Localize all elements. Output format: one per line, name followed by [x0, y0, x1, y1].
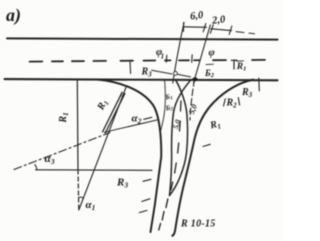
tick left of R2 — [224, 99, 226, 106]
tick with R1 overbar on centerline right — [233, 60, 235, 69]
svg-text:R3: R3 — [141, 67, 153, 79]
left side tick y118 — [144, 117, 152, 119]
svg-text:2,0: 2,0 — [211, 14, 227, 27]
svg-text:R1: R1 — [236, 62, 247, 73]
left side tick y200 — [142, 199, 150, 202]
svg-text:R2: R2 — [226, 98, 238, 110]
long radial line to alpha1 vertex — [79, 86, 127, 210]
svg-text:R3: R3 — [116, 177, 128, 190]
svg-text:R1: R1 — [95, 98, 111, 113]
tick on centerline x130 — [129, 61, 132, 73]
alpha2 ray — [105, 120, 158, 132]
left R1 curve and left edge of branch road — [96, 79, 161, 232]
R1 radius band line 1 — [103, 92, 123, 132]
tangent point tick on bottom edge right — [258, 78, 261, 91]
svg-text:а): а) — [6, 5, 21, 26]
left extension line of branch edge above road — [173, 23, 184, 84]
junction ink blob — [192, 77, 197, 81]
svg-text:R1: R1 — [208, 118, 222, 132]
vertical construction line — [76, 80, 79, 170]
R1 radius band line 2 — [105, 94, 125, 134]
2,0 right tick — [229, 26, 232, 34]
island right side (crossing from upper-left) — [170, 81, 188, 196]
angle alpha3 arc — [35, 165, 37, 170]
tick below phi1 — [165, 55, 168, 62]
svg-text:6,0: 6,0 — [190, 10, 205, 23]
svg-text:R1: R1 — [58, 112, 70, 123]
tick right of R2 — [238, 98, 239, 106]
svg-text:α3: α3 — [45, 153, 55, 166]
svg-text:φ1: φ1 — [156, 47, 164, 61]
svg-text:α1: α1 — [86, 199, 96, 212]
svg-text:R 10-15: R 10-15 — [180, 219, 216, 230]
svg-text:Б2: Б2 — [204, 68, 215, 79]
dash-dot bisector line — [14, 133, 110, 170]
dashed continuation after 2,0 — [236, 32, 255, 34]
left side tick y180 — [143, 179, 151, 181]
svg-text:α2: α2 — [132, 113, 142, 126]
bottom road edge — [5, 79, 278, 80]
dimension line 2,0 — [211, 29, 232, 31]
2,0 left tick — [210, 25, 213, 33]
right composite curve R3-R2-R1 and right edge of branch road — [172, 80, 253, 236]
node circle — [174, 72, 178, 76]
dashed centerline of main road — [30, 60, 265, 62]
leader from R3 to node circle — [152, 70, 191, 77]
svg-text:R3: R3 — [241, 87, 253, 99]
horizontal R3 measure line — [36, 169, 153, 172]
6,0 left tick — [183, 23, 185, 32]
band arrowhead — [121, 92, 125, 96]
island left side (crossing from upper-right) — [170, 80, 192, 196]
right extension line of branch edge above road — [194, 25, 211, 83]
right side tick y145 — [203, 144, 210, 146]
dimension line 6,0 — [184, 26, 207, 29]
top road edge — [7, 38, 278, 39]
left side tick y211 — [139, 210, 147, 212]
svg-text:5,0: 5,0 — [187, 103, 199, 115]
branch road centerline dashes below island tip — [159, 199, 168, 230]
svg-text:5,0: 5,0 — [171, 118, 183, 130]
angle alpha1 arc — [78, 197, 83, 198]
short inner lane line left of island — [161, 80, 166, 131]
svg-text:Б2: Б2 — [164, 103, 174, 114]
island axis dashes — [171, 101, 181, 190]
inner edge of right-turn lane — [190, 80, 195, 120]
6,0 right tick — [203, 24, 206, 32]
tick below phi — [191, 55, 194, 63]
svg-text:φ: φ — [209, 48, 215, 59]
